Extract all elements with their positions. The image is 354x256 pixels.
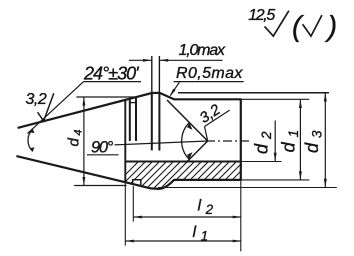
roughness check mark in parens	[303, 15, 322, 36]
svg-text:d4: d4	[66, 130, 85, 147]
dimension 1,0max arrows and extensions	[151, 56, 153, 93]
dimension d1 extensions	[241, 98, 309, 100]
dimension d4 reference line bottom	[74, 185, 126, 187]
centerline dash-dot	[206, 140, 252, 142]
band edge line left	[151, 93, 153, 150]
dimension d3 extensions	[178, 92, 329, 94]
svg-text:d2: d2	[252, 131, 275, 154]
svg-text:3,2: 3,2	[26, 91, 47, 108]
90 deg internal cone upper line	[167, 100, 208, 141]
dimension d4 line with arrows	[83, 97, 85, 186]
dimension d3 line with arrows	[324, 93, 326, 188]
extension line left for l1	[124, 182, 126, 246]
roughness check mark symbol	[265, 11, 289, 36]
groove edge line right	[135, 97, 137, 141]
svg-text:l1: l1	[193, 224, 209, 244]
band edge line right	[158, 93, 160, 151]
extension line left for l2	[132, 186, 134, 222]
notch groove white square in section	[133, 180, 141, 186]
left face line of body	[124, 100, 126, 182]
dimension d1 line with arrows	[299, 99, 301, 180]
svg-text:12,5: 12,5	[248, 7, 275, 24]
extension line right face down for l1 l2	[240, 180, 242, 252]
hatch section fill	[108, 150, 276, 192]
svg-text:R0,5max: R0,5max	[176, 65, 243, 82]
main outline: taper cone, band, chamfer, body	[16, 93, 240, 189]
svg-text:d3: d3	[302, 130, 325, 153]
dimension l1 line with arrows	[125, 240, 241, 242]
groove bottom line	[131, 102, 137, 104]
dimension d2 line arrow and extension	[241, 161, 282, 163]
svg-text:l2: l2	[198, 198, 214, 218]
svg-text:24°±30': 24°±30'	[83, 63, 139, 83]
svg-text:d1: d1	[279, 130, 302, 153]
angle arc at cone tip with arrows	[28, 129, 33, 151]
90 deg internal cone lower line	[187, 141, 208, 162]
groove edge line left	[129, 99, 131, 141]
svg-text:90°: 90°	[91, 138, 114, 156]
bore wall line (hatch top)	[125, 161, 241, 163]
svg-text:): )	[325, 11, 338, 43]
svg-text:(: (	[292, 11, 305, 43]
svg-text:1,0max: 1,0max	[179, 42, 226, 59]
90 deg angle arc with arrows	[182, 123, 190, 160]
dimension l2 line with arrows	[133, 216, 241, 218]
rotated roughness label 3,2 at internal cone with underline and leader	[196, 97, 230, 128]
dimension d4 reference line top	[76, 96, 135, 98]
